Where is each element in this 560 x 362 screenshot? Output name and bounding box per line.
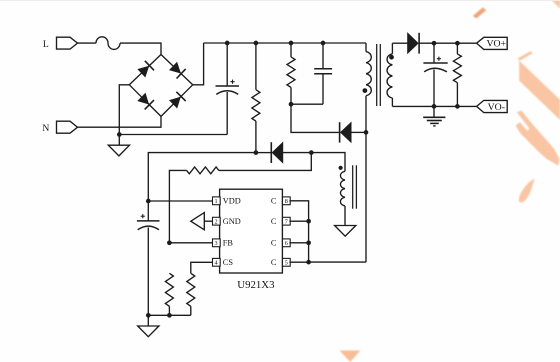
- capacitor C3 (VDD electrolytic): [147, 201, 149, 221]
- junction output / C4: [432, 41, 437, 46]
- wire R2 to C2 bottom: [291, 103, 323, 105]
- resistor R3 (feedback upper): [219, 153, 311, 171]
- transformer T1 aux core: [352, 165, 354, 208]
- junction bottom / R6: [455, 104, 460, 109]
- wire FB node to pin3: [169, 242, 212, 244]
- terminal N tag: [57, 121, 78, 133]
- resistor R1 (startup): [255, 43, 257, 90]
- svg-text:C: C: [271, 217, 277, 226]
- wire pin7 stub: [289, 220, 308, 222]
- svg-text:VDD: VDD: [223, 197, 241, 206]
- transformer T1 aux polarity dot: [339, 166, 343, 170]
- wire snubber node to clamp diode: [291, 104, 339, 132]
- svg-text:3: 3: [215, 240, 218, 247]
- svg-text:L: L: [43, 39, 49, 50]
- diode D6 (VDD rect), cathode left: [270, 142, 272, 163]
- terminal VO- tag: [477, 100, 508, 112]
- pin 4 box (CS): [213, 258, 221, 266]
- svg-text:1: 1: [215, 198, 218, 205]
- wire N to bridge bottom: [78, 116, 162, 127]
- junction FB node: [167, 240, 172, 245]
- svg-text:4: 4: [215, 260, 218, 267]
- bridge diode D2 (top to right): [170, 62, 181, 73]
- wire R1 node to D6: [256, 152, 271, 154]
- capacitor C1 bulk electrolytic: [226, 43, 228, 86]
- transformer T1 secondary polarity dot: [389, 55, 394, 60]
- svg-text:2: 2: [215, 219, 218, 226]
- svg-text:FB: FB: [223, 239, 234, 248]
- wire C1 bottom to ground junction: [119, 134, 227, 136]
- gate test-point arrow at GND pin: [191, 213, 205, 230]
- junction bus pin5: [306, 260, 311, 265]
- decor: right diagonal band: [519, 61, 560, 120]
- pin 7 box (C): [283, 217, 291, 225]
- junction R2/C2 node: [289, 102, 294, 107]
- wire L tag to fuse: [78, 42, 97, 44]
- wire startup node to VDD corner: [148, 153, 256, 201]
- capacitor C2 (snubber film): [322, 43, 324, 69]
- bridge diode D1 (left to top): [138, 66, 149, 77]
- wire bridge right to top rail: [193, 43, 204, 85]
- transformer T1 primary polarity dot: [363, 88, 368, 93]
- wire bottom rail (C3/R4/R5): [148, 314, 191, 316]
- junction bottom / C4: [432, 104, 437, 109]
- svg-text:C: C: [271, 239, 277, 248]
- transformer T1 primary winding: [365, 43, 367, 52]
- junction D6 / FB resistor node: [309, 150, 314, 155]
- svg-text:N: N: [42, 123, 49, 134]
- svg-text:GND: GND: [223, 217, 241, 226]
- bridge diode D4 (bottom to right): [170, 97, 181, 108]
- svg-text:6: 6: [285, 240, 288, 247]
- pin 3 box (FB): [213, 239, 221, 247]
- decor: thin sliver above band: [518, 51, 533, 61]
- op-amp U1 U921X3 body: [220, 189, 283, 273]
- transformer T1 core: [376, 44, 378, 106]
- decor: lightning arrow shape: [516, 111, 560, 166]
- ground primary (triangle): [108, 145, 129, 156]
- resistor R6 (output load): [456, 43, 458, 54]
- pin 2 box (GND): [213, 217, 221, 225]
- decor: top-right corner wedge: [552, 0, 560, 9]
- svg-text:CS: CS: [223, 258, 234, 267]
- pin 1 box (VDD): [213, 197, 221, 205]
- junction bottom rail / C3: [146, 313, 151, 318]
- diode D7 (output rectifier): [408, 33, 419, 54]
- wire output bottom rail: [392, 105, 476, 107]
- capacitor C4 (output electrolytic): [433, 43, 435, 63]
- ground aux (triangle): [335, 226, 356, 237]
- wire pin5 stub: [289, 261, 308, 263]
- wire VDD node to pin1: [148, 200, 212, 202]
- svg-text:7: 7: [285, 219, 288, 226]
- junction VDD node: [146, 199, 151, 204]
- svg-text:C: C: [271, 258, 277, 267]
- wire pin8 to drain bus: [289, 201, 308, 262]
- transformer T1 aux winding: [340, 171, 345, 180]
- svg-text:VO+: VO+: [486, 39, 506, 50]
- wire drain (primary bottom to pin5 row): [365, 96, 367, 262]
- junction bus pin6: [306, 240, 311, 245]
- junction top rail / C1: [225, 41, 230, 46]
- diode D5 (clamp), cathode left: [339, 122, 341, 142]
- svg-text:VO-: VO-: [488, 102, 505, 113]
- pin 5 box (C): [283, 258, 291, 266]
- bridge rectifier BR1 diamond outline: [129, 55, 192, 117]
- decor: small hook shape: [519, 179, 535, 203]
- junction output / R6: [455, 41, 460, 46]
- svg-text:8: 8: [285, 198, 288, 205]
- pin 6 box (C): [283, 239, 291, 247]
- junction primary ground node: [117, 132, 122, 137]
- svg-text:U921X3: U921X3: [237, 279, 274, 291]
- resistor R2 (snubber): [290, 43, 292, 57]
- junction bus pin7: [306, 219, 311, 224]
- ground IC (triangle): [138, 326, 159, 337]
- fuse F1: [96, 37, 120, 50]
- wire drain to IC pin5: [309, 261, 366, 263]
- wire aux diode to aux winding: [311, 153, 345, 172]
- bridge diode D3 (left to bottom): [138, 93, 149, 104]
- decor: top hairline: [0, 0, 560, 1]
- junction top rail / R2: [289, 41, 294, 46]
- resistor R5 (current sense): [191, 262, 213, 273]
- resistor R4 (feedback lower): [165, 273, 173, 306]
- svg-text:5: 5: [285, 260, 288, 267]
- terminal L tag: [57, 37, 78, 49]
- wire stem to IC ground: [147, 315, 149, 326]
- ground output (earth): [433, 106, 435, 116]
- wire secondary top to D7: [392, 42, 407, 44]
- junction top rail / C2: [321, 41, 326, 46]
- decor: bottom triangle: [340, 351, 361, 362]
- pin 8 box (C): [283, 197, 291, 205]
- terminal VO+ tag: [477, 37, 508, 49]
- junction R1 bottom / aux wire: [254, 150, 259, 155]
- wire top rail: [204, 42, 366, 44]
- svg-text:C: C: [271, 197, 277, 206]
- junction bottom rail / R4: [167, 313, 172, 318]
- wire bridge left to ground junction: [119, 85, 129, 145]
- decor: top-right diagonal stripe fragment: [473, 7, 486, 18]
- wire pin6 stub: [289, 242, 308, 244]
- wire fuse to bridge top: [120, 43, 161, 54]
- junction top rail / R1: [254, 41, 259, 46]
- transformer T1 secondary winding: [391, 43, 393, 54]
- junction drain node / clamp: [364, 130, 369, 135]
